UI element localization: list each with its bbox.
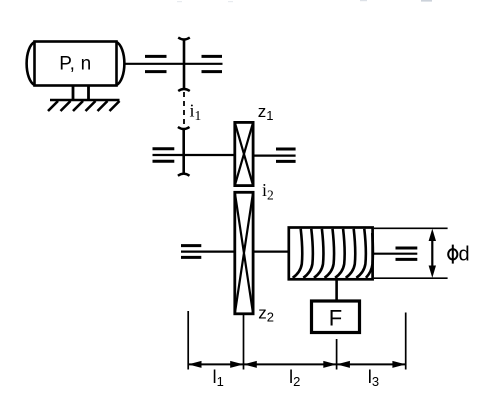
drum diameter extension top bbox=[374, 227, 448, 229]
shaft 1 bbox=[126, 63, 223, 65]
shaft 2 bbox=[153, 154, 234, 156]
svg-text:d: d bbox=[459, 243, 470, 265]
load box F bbox=[312, 301, 360, 333]
shaft 3 mid bbox=[253, 251, 290, 253]
ground hatching bbox=[48, 101, 120, 111]
dimension line l2 bbox=[244, 361, 337, 368]
bearing B1 left bbox=[145, 56, 167, 71]
drum rope windings bbox=[293, 229, 373, 278]
sprocket z1 bbox=[235, 122, 253, 185]
dimension extension line 1 bbox=[187, 311, 189, 370]
drum diameter arrow bbox=[429, 229, 436, 278]
rope to load bbox=[335, 279, 338, 301]
bearing B3 left bbox=[181, 246, 201, 258]
bearing B1 right bbox=[202, 56, 223, 71]
gear wheel 2 bbox=[178, 127, 190, 176]
dimension line l3 bbox=[337, 361, 406, 368]
sprocket z2 bbox=[235, 192, 253, 313]
motor mount legs bbox=[73, 86, 89, 100]
dimension extension line 2 bbox=[243, 315, 245, 370]
dimension line l1 bbox=[188, 361, 243, 368]
bearing B2 right bbox=[276, 149, 296, 161]
svg-text:F: F bbox=[329, 305, 342, 330]
dimension extension line 3 bbox=[336, 339, 338, 370]
bearing B2 left bbox=[153, 149, 175, 161]
bearing B3 right bbox=[396, 248, 418, 259]
stage link i1 dashed line bbox=[183, 92, 185, 126]
shaft 3 right stub bbox=[373, 253, 418, 255]
label phi d bbox=[448, 243, 469, 265]
drum diameter extension bottom bbox=[374, 277, 448, 279]
gear wheel 1 bbox=[178, 38, 190, 92]
shaft 3 bbox=[181, 251, 235, 253]
ground line bbox=[50, 99, 120, 101]
drum body bbox=[289, 228, 373, 280]
dimension extension line 4 bbox=[405, 313, 407, 370]
shaft 2 right stub bbox=[255, 155, 296, 157]
svg-text:P, n: P, n bbox=[59, 54, 91, 75]
faint cropped text remnants at top edge bbox=[177, 0, 432, 2]
motor M body bbox=[27, 42, 125, 86]
